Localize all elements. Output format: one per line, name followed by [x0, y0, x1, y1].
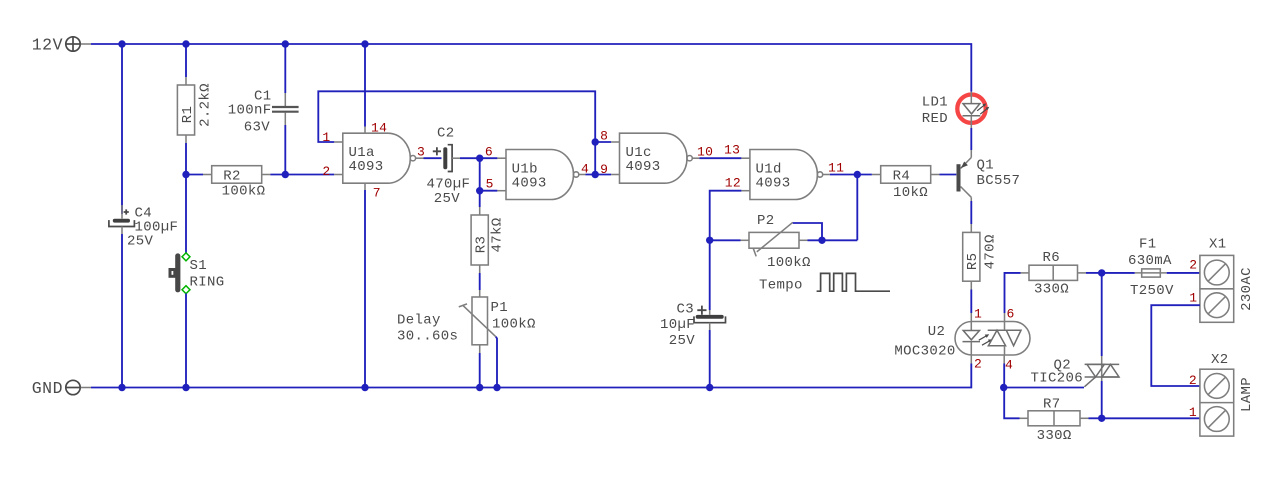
- svg-text:47kΩ: 47kΩ: [489, 217, 505, 252]
- svg-text:4093: 4093: [626, 159, 661, 175]
- wire C4 column top: [121, 44, 123, 214]
- wire U1a pin14 to rail: [364, 44, 366, 127]
- wire R4 to Q1 base: [940, 174, 957, 176]
- svg-text:7: 7: [373, 186, 381, 201]
- capacitor C3: [660, 302, 726, 350]
- svg-text:4093: 4093: [512, 175, 547, 191]
- wire U1c out to U1d pin13: [700, 157, 742, 159]
- svg-text:R7: R7: [1043, 397, 1061, 413]
- wire U2 pin4 to gate node: [1003, 364, 1005, 388]
- resistor R6: [1021, 250, 1087, 298]
- svg-text:10µF: 10µF: [660, 317, 695, 333]
- capacitor C2: [427, 126, 471, 208]
- wire X1 pin1 to X2 pin2: [1151, 305, 1200, 386]
- svg-text:3: 3: [417, 145, 425, 160]
- svg-text:330Ω: 330Ω: [1037, 428, 1072, 444]
- NAND gate U1d 4093: [741, 150, 830, 200]
- wire gate node to triac gate: [1004, 387, 1084, 389]
- potentiometer P2: [741, 213, 811, 271]
- wire U1d pin12 to C3 node: [710, 191, 742, 241]
- wire 12V rail: [91, 44, 971, 92]
- svg-text:C2: C2: [437, 126, 455, 142]
- svg-text:230AC: 230AC: [1239, 267, 1255, 311]
- NAND gate U1a 4093: [334, 127, 423, 191]
- svg-text:6: 6: [485, 144, 493, 159]
- svg-text:630mA: 630mA: [1128, 253, 1172, 269]
- svg-text:25V: 25V: [669, 333, 696, 349]
- svg-text:8: 8: [600, 129, 608, 144]
- svg-text:14: 14: [371, 121, 387, 136]
- svg-text:TIC206: TIC206: [1030, 371, 1083, 387]
- svg-text:12V: 12V: [32, 36, 63, 55]
- wire node to U1b pin6: [480, 157, 498, 159]
- resistor R4: [872, 166, 940, 201]
- wire node to F1: [1102, 272, 1135, 274]
- resistor R1: [177, 77, 213, 143]
- svg-text:R4: R4: [893, 169, 911, 185]
- svg-text:100kΩ: 100kΩ: [222, 184, 266, 200]
- svg-text:GND: GND: [32, 379, 63, 398]
- svg-text:2.2kΩ: 2.2kΩ: [197, 83, 213, 127]
- svg-text:T250V: T250V: [1130, 283, 1174, 299]
- terminal X2: [1200, 352, 1255, 436]
- optocoupler U2 MOC3020: [894, 313, 1030, 364]
- triac Q2 TIC206: [1030, 356, 1119, 387]
- svg-text:Tempo: Tempo: [759, 278, 803, 294]
- fuse F1: [1128, 237, 1174, 300]
- wire U1d out to R4 node: [830, 174, 872, 176]
- svg-text:C3: C3: [676, 302, 694, 318]
- svg-text:RING: RING: [190, 275, 225, 291]
- wire R1node to R2: [186, 174, 203, 176]
- svg-text:100kΩ: 100kΩ: [492, 317, 536, 333]
- wire triac down to R7 node: [1101, 381, 1103, 418]
- svg-text:4093: 4093: [349, 159, 384, 175]
- svg-text:R2: R2: [223, 169, 241, 185]
- wire F1 to X1 pin2: [1167, 272, 1200, 274]
- wire C3 to GND: [709, 330, 711, 388]
- wire P1 wiper to GND: [496, 337, 497, 388]
- svg-text:11: 11: [828, 161, 844, 176]
- wire gate node down to R7: [1004, 388, 1019, 419]
- svg-text:2: 2: [322, 164, 330, 179]
- wire node to S1: [185, 175, 187, 254]
- resistor R7: [1020, 397, 1089, 445]
- svg-text:S1: S1: [190, 258, 208, 274]
- svg-text:100kΩ: 100kΩ: [767, 255, 811, 271]
- svg-text:R1: R1: [180, 106, 196, 124]
- svg-text:F1: F1: [1139, 237, 1157, 253]
- NAND gate U1c 4093: [611, 133, 699, 183]
- svg-text:1: 1: [1189, 290, 1197, 305]
- resistor R3: [471, 207, 505, 273]
- wire S1 to GND: [185, 294, 187, 388]
- wire C1 top: [284, 44, 286, 93]
- svg-text:30..60s: 30..60s: [397, 329, 458, 345]
- svg-text:R3: R3: [474, 236, 490, 254]
- wire node to R3: [479, 191, 481, 207]
- svg-text:63V: 63V: [244, 120, 271, 136]
- wire node to X2 pin1: [1102, 417, 1200, 419]
- svg-text:25V: 25V: [127, 234, 154, 250]
- wire R2 to U1a pin2: [270, 174, 334, 176]
- svg-text:R6: R6: [1043, 250, 1061, 266]
- wire node vertical: [479, 158, 481, 191]
- svg-text:P2: P2: [757, 213, 775, 229]
- svg-text:13: 13: [724, 143, 740, 158]
- resistor R2: [203, 166, 270, 200]
- svg-text:R5: R5: [965, 253, 981, 271]
- wire R6 to node: [1086, 272, 1102, 274]
- NAND gate U1b 4093: [497, 150, 585, 200]
- wire node to U1b pin5: [480, 190, 498, 192]
- svg-text:X2: X2: [1211, 352, 1229, 368]
- potentiometer P1: [459, 290, 536, 353]
- svg-text:100nF: 100nF: [228, 103, 272, 119]
- wire feedback U1b out to U1a pin1 and U1c pin8: [318, 91, 595, 142]
- LED LD1: [922, 92, 990, 129]
- svg-text:Q1: Q1: [977, 158, 995, 174]
- svg-text:X1: X1: [1209, 237, 1227, 253]
- svg-text:2: 2: [974, 357, 982, 372]
- wire GND rail: [91, 364, 971, 388]
- svg-text:MOC3020: MOC3020: [894, 344, 955, 360]
- svg-text:2: 2: [1189, 257, 1197, 272]
- square wave glyph: [817, 273, 890, 291]
- svg-text:P1: P1: [491, 300, 509, 316]
- svg-text:LAMP: LAMP: [1239, 377, 1255, 412]
- svg-text:BC557: BC557: [977, 173, 1021, 189]
- wire P2 wiper: [793, 223, 822, 240]
- capacitor C1: [228, 89, 299, 136]
- svg-text:9: 9: [600, 162, 608, 177]
- wire C1 to R2 node: [284, 125, 286, 175]
- svg-text:1: 1: [974, 307, 982, 322]
- wire Q1 collector to R5: [970, 201, 972, 224]
- svg-text:Delay: Delay: [397, 313, 441, 329]
- svg-text:25V: 25V: [434, 191, 461, 207]
- ground symbol GND: [32, 379, 91, 398]
- wire U1a pin7 to GND: [364, 190, 366, 388]
- wire U2 pin6 to R6: [1005, 273, 1021, 313]
- wire P2 left to node: [710, 239, 741, 241]
- wire C2 to node: [460, 157, 480, 159]
- transistor Q1 BC557: [957, 150, 1021, 201]
- switch S1: [170, 253, 225, 294]
- svg-text:10kΩ: 10kΩ: [893, 185, 928, 201]
- svg-text:10: 10: [697, 145, 713, 160]
- svg-text:1: 1: [1189, 405, 1197, 420]
- svg-text:LD1: LD1: [922, 95, 948, 111]
- svg-text:12: 12: [725, 176, 741, 191]
- node mid dots: [182, 171, 189, 178]
- svg-text:330Ω: 330Ω: [1034, 282, 1069, 298]
- wire R1 top: [185, 44, 187, 77]
- wire Q1 emitter to LED: [970, 128, 972, 150]
- svg-text:U2: U2: [928, 324, 946, 340]
- svg-text:2: 2: [1189, 373, 1197, 388]
- wire R5 to U2 pin1: [970, 290, 972, 314]
- node rail dots: [118, 40, 125, 47]
- svg-text:4: 4: [581, 161, 589, 176]
- svg-text:RED: RED: [922, 111, 948, 127]
- svg-text:6: 6: [1007, 307, 1015, 322]
- svg-text:4093: 4093: [756, 175, 791, 191]
- wire node11 down to P2: [856, 175, 858, 241]
- svg-text:4: 4: [1005, 358, 1013, 373]
- wire R1 to node: [185, 143, 187, 175]
- svg-text:470Ω: 470Ω: [982, 234, 998, 269]
- wire node down to triac: [1101, 273, 1103, 356]
- svg-text:5: 5: [486, 176, 494, 191]
- terminal X1: [1200, 237, 1255, 323]
- wire C4 to GND: [121, 234, 123, 388]
- wire R3 to P1: [479, 273, 481, 290]
- wire P1 to GND: [479, 353, 481, 388]
- wire R7 to node: [1089, 417, 1102, 419]
- node gnd dots: [118, 384, 125, 391]
- capacitor C4: [109, 205, 178, 250]
- supply symbol 12V: [32, 36, 91, 55]
- wire C3 node down: [709, 240, 711, 310]
- wire U1a out to C2: [424, 157, 442, 159]
- resistor R5: [963, 224, 999, 290]
